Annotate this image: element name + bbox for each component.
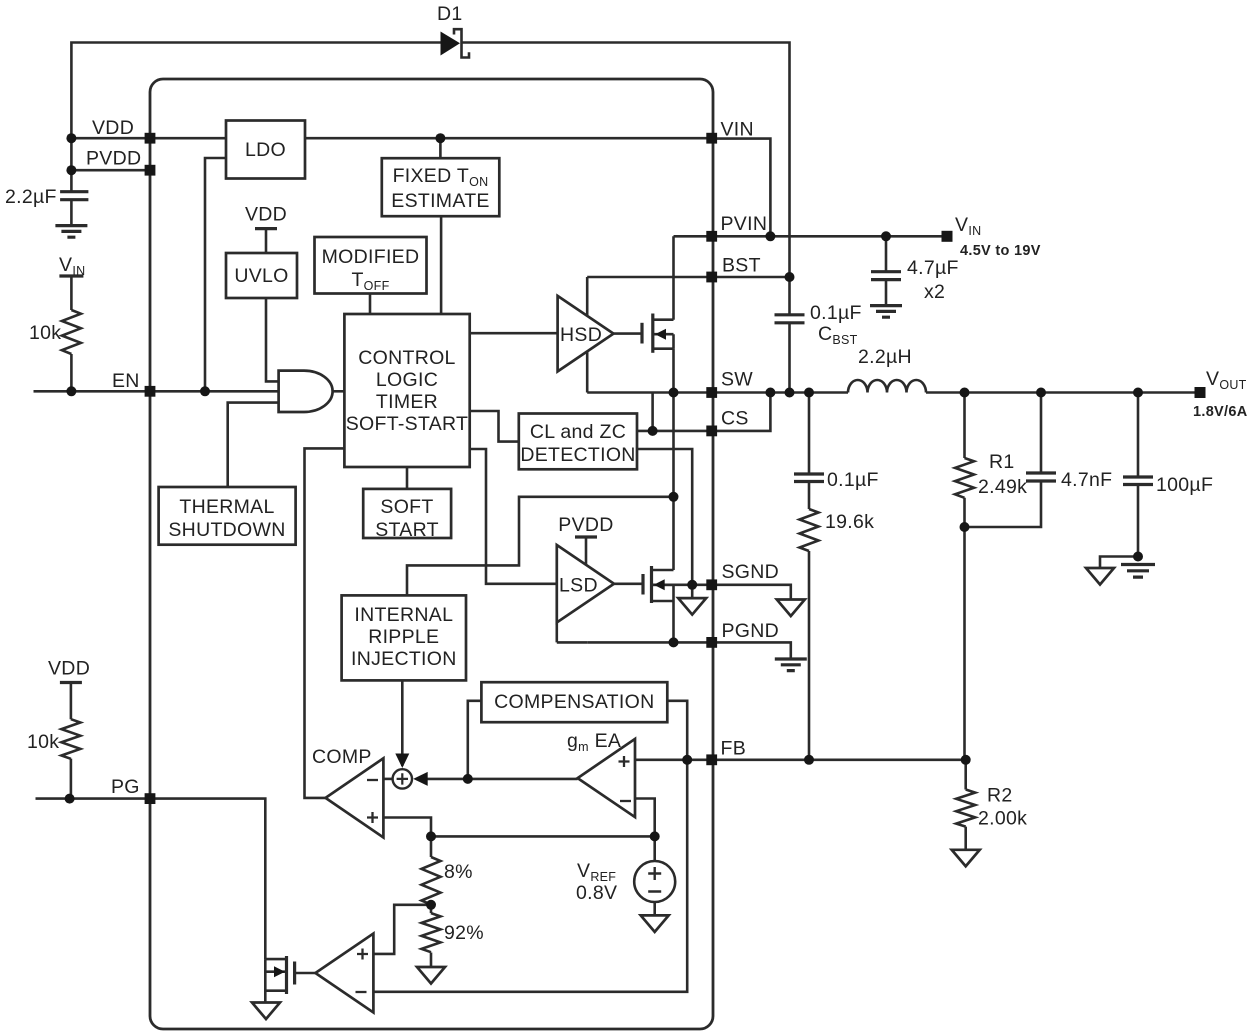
label PG comparator plus input	[357, 949, 368, 960]
svg-text:R2: R2	[987, 785, 1013, 807]
wire fixed ton estimate to control logic	[440, 216, 443, 314]
wire FB row	[635, 758, 966, 761]
pin EN	[145, 386, 156, 397]
wire LSD bottom rail to PGND	[557, 623, 587, 643]
wire CL and ZC to SGND	[637, 449, 692, 585]
capacitor CBST 0.1uF	[775, 277, 805, 393]
svg-text:VIN: VIN	[721, 119, 754, 141]
svg-text:SHUTDOWN: SHUTDOWN	[168, 519, 285, 541]
summing node circle	[393, 769, 412, 788]
wire R1 bottom to FB	[963, 527, 966, 760]
ground earth bars below 4.7uF	[870, 306, 902, 318]
pin PGND	[706, 637, 717, 648]
node PGND junction	[669, 637, 679, 647]
wire SGND pin to external ground	[712, 585, 791, 600]
ground triangle below 92 percent	[417, 967, 445, 984]
gate AND (EN logic)	[279, 371, 333, 412]
svg-text:x2: x2	[924, 281, 945, 303]
svg-text:INJECTION: INJECTION	[351, 648, 457, 670]
svg-text:CL and ZC: CL and ZC	[530, 421, 626, 443]
node VIN-PVIN junction	[765, 231, 775, 241]
transistor PG open-drain MOSFET	[265, 956, 294, 1003]
node VDD supply bar (PG pullup)	[60, 681, 82, 684]
wire SW row	[587, 391, 1195, 394]
svg-text:4.5V to 19V: 4.5V to 19V	[960, 243, 1041, 259]
ground triangle at output	[1086, 568, 1114, 585]
block SOFT START	[363, 489, 451, 538]
wire VDD supply to UVLO	[265, 229, 268, 253]
opamp input signs	[356, 756, 632, 992]
node BST-CBST junction	[785, 272, 795, 282]
wire VDD rail to D1 anode (top left)	[71, 43, 440, 139]
node SW-CS junction	[765, 388, 775, 398]
svg-text:CS: CS	[721, 408, 749, 430]
capacitor 2.2uF input bypass	[60, 192, 88, 226]
node 100uF-gnd junction	[1133, 552, 1143, 562]
label COMP minus input	[367, 779, 378, 781]
pin PG	[145, 793, 156, 804]
node divider-top junction	[426, 831, 436, 841]
svg-text:HSD: HSD	[560, 324, 602, 346]
wire control logic to HSD	[470, 332, 558, 335]
wire SGND row	[652, 583, 712, 586]
svg-text:VDD: VDD	[48, 658, 90, 680]
node SW-4.7nF junction	[1036, 388, 1046, 398]
diode D1	[441, 29, 470, 57]
wire FB to PG comparator inverting input	[373, 760, 687, 992]
svg-text:BST: BST	[722, 255, 761, 277]
node VDD-D1 junction	[66, 133, 76, 143]
wire D1 cathode to BST node	[462, 43, 790, 278]
node PVDD-cap junction	[66, 165, 76, 175]
svg-text:EN: EN	[112, 370, 140, 392]
node ripple tap junction	[669, 492, 679, 502]
node VDD supply bar (UVLO)	[255, 227, 277, 230]
node PG-pullup junction	[65, 794, 75, 804]
resistor 92 percent	[422, 913, 441, 952]
wire PG pin to open drain MOSFET	[150, 799, 265, 960]
svg-text:ESTIMATE: ESTIMATE	[391, 190, 489, 212]
wire compensation left to summing node	[468, 701, 482, 779]
node SW-HSD junction	[669, 388, 679, 398]
node R1-4.7nF junction	[960, 522, 970, 532]
svg-text:START: START	[375, 519, 439, 541]
svg-text:19.6k: 19.6k	[825, 511, 874, 533]
resistor 19.6k	[800, 509, 819, 760]
wire divider mid to PG comparator noninverting input	[373, 905, 431, 954]
node divider-mid junction	[426, 900, 436, 910]
svg-text:DETECTION: DETECTION	[520, 444, 635, 466]
block THERMAL SHUTDOWN	[159, 487, 296, 545]
ground triangle VREF	[641, 915, 669, 932]
ground earth bars below 2.2uF	[55, 226, 87, 238]
svg-text:LDO: LDO	[245, 139, 286, 161]
svg-text:2.2µF: 2.2µF	[5, 186, 57, 208]
block COMPENSATION	[481, 682, 667, 722]
label gm EA minus input	[620, 800, 631, 802]
resistor R1 2.49k	[955, 393, 974, 528]
capacitor 4.7nF	[965, 393, 1057, 528]
transistor high-side MOSFET	[614, 314, 674, 353]
wire 92 percent resistor to ground	[430, 953, 433, 968]
wire PG comparator output to MOSFET gate	[295, 972, 316, 975]
svg-text:PVIN: PVIN	[721, 213, 768, 235]
svg-text:SOFT-START: SOFT-START	[346, 413, 469, 435]
pin SW	[706, 387, 717, 398]
svg-text:PGND: PGND	[722, 620, 780, 642]
ground triangle SGND external	[777, 600, 805, 617]
ground triangle PG MOSFET source	[252, 1003, 280, 1020]
svg-text:PG: PG	[111, 776, 140, 798]
svg-text:0.1µF: 0.1µF	[827, 469, 879, 491]
wire UVLO to AND gate	[266, 298, 279, 381]
wire VDD pullup to PG	[70, 683, 73, 799]
svg-text:92%: 92%	[444, 922, 484, 944]
svg-text:VDD: VDD	[245, 204, 287, 226]
wire thermal shutdown to AND gate	[228, 403, 279, 487]
node SW-ripple junction	[804, 388, 814, 398]
resistor 10k (EN divider)	[62, 310, 81, 354]
node summing-comp junction	[463, 774, 473, 784]
svg-text:VDD: VDD	[92, 117, 134, 139]
block FIXED TON ESTIMATE	[382, 158, 500, 216]
svg-text:SOFT: SOFT	[380, 496, 433, 518]
svg-text:SW: SW	[721, 369, 753, 391]
wire ripple injection tap	[407, 497, 674, 596]
wire PG row	[36, 797, 151, 800]
amplifier COMP	[326, 758, 384, 837]
wire control logic to LSD	[470, 449, 557, 584]
node SW-CBST junction	[785, 388, 795, 398]
wire FIXED TON to VDD rail	[439, 138, 442, 158]
svg-text:RIPPLE: RIPPLE	[368, 626, 439, 648]
node CS-sense junction	[648, 426, 658, 436]
svg-text:2.49k: 2.49k	[978, 476, 1027, 498]
block LDO	[226, 121, 305, 179]
svg-text:0.1µF: 0.1µF	[810, 302, 862, 324]
svg-text:INTERNAL: INTERNAL	[354, 604, 453, 626]
svg-text:LSD: LSD	[559, 575, 598, 597]
pin CS	[706, 426, 717, 437]
label PG comparator minus input	[356, 991, 367, 993]
wire gm EA output to summing node	[416, 778, 578, 781]
svg-text:TIMER: TIMER	[376, 391, 438, 413]
node FB-R2 junction	[961, 755, 971, 765]
svg-text:100µF: 100µF	[1156, 474, 1213, 496]
svg-text:0.8V: 0.8V	[576, 882, 617, 904]
svg-text:CONTROL: CONTROL	[358, 347, 455, 369]
ground triangle SGND internal	[678, 598, 706, 615]
svg-text:D1: D1	[437, 3, 463, 25]
svg-text:2.00k: 2.00k	[978, 808, 1027, 830]
svg-text:PVDD: PVDD	[558, 514, 613, 536]
wire PGND pin to external ground	[712, 642, 791, 659]
node EN-divider junction	[66, 386, 76, 396]
pin VIN	[706, 133, 717, 144]
node FB-comp junction	[682, 755, 692, 765]
IC boundary	[150, 79, 713, 1029]
inductor 2.2uH	[848, 380, 926, 393]
wire modified toff to control logic	[369, 294, 372, 315]
svg-text:FB: FB	[721, 738, 747, 760]
wire EN to LDO	[205, 158, 226, 391]
node EN-LDO junction	[200, 386, 210, 396]
driver LSD	[557, 545, 614, 623]
svg-text:1.8V/6A: 1.8V/6A	[1193, 404, 1248, 420]
svg-text:4.7µF: 4.7µF	[907, 257, 959, 279]
wire COMP noninverting input to divider	[383, 818, 654, 837]
svg-text:SGND: SGND	[722, 561, 780, 583]
wire HSD drain from PVIN	[672, 236, 675, 319]
capacitor 100uF output	[1123, 393, 1153, 557]
wire HSD source to SW	[672, 349, 675, 393]
node PVIN-4.7uF junction	[881, 231, 891, 241]
pin squares	[145, 133, 718, 804]
svg-text:10k: 10k	[29, 322, 61, 344]
wire internal SGND ground stub	[691, 585, 694, 598]
svg-text:PVDD: PVDD	[86, 148, 141, 170]
block CL and ZC DETECTION	[519, 414, 637, 470]
resistor 8 percent	[422, 857, 441, 905]
ground earth bars PGND external	[775, 659, 807, 671]
block INTERNAL RIPPLE INJECTION	[342, 595, 466, 680]
wire CS row	[637, 393, 770, 431]
terminal VIN input	[942, 231, 953, 242]
driver HSD	[558, 296, 614, 372]
wire EN row	[34, 390, 279, 393]
ground earth bars below 100uF	[1121, 565, 1155, 578]
wire PVDD pin to input cap	[71, 138, 150, 192]
comparator PG	[315, 934, 373, 1013]
wire LSD source to PGND row	[672, 601, 675, 642]
pin BST	[706, 272, 717, 283]
capacitor 0.1uF ripple injection	[794, 393, 824, 510]
node VDD-TON junction	[435, 133, 445, 143]
transistor low-side MOSFET	[614, 566, 674, 603]
pin SGND	[706, 579, 717, 590]
wire PVIN row	[674, 235, 943, 238]
node SW-100uF junction	[1133, 388, 1143, 398]
svg-text:UVLO: UVLO	[234, 265, 288, 287]
label gm EA plus input	[619, 756, 630, 767]
wire BST row	[587, 276, 789, 279]
wire SW rail to LSD drain	[672, 393, 675, 571]
ground triangle below R2	[952, 850, 980, 867]
wire compensation right to FB	[667, 701, 687, 760]
wire 100uF to analog ground	[1100, 557, 1138, 569]
block UVLO	[226, 253, 297, 298]
terminal VOUT output	[1195, 387, 1206, 398]
node FB-ripple junction	[804, 755, 814, 765]
wire control logic to soft start	[406, 467, 409, 489]
wire control logic to CL and ZC detection	[470, 411, 519, 442]
wire VIN pin to PVIN row	[712, 139, 771, 237]
svg-text:LOGIC: LOGIC	[376, 369, 438, 391]
wire PGND row	[587, 641, 712, 644]
block CONTROL LOGIC TIMER SOFT-START	[344, 314, 469, 467]
pin FB	[706, 754, 717, 765]
arrow gm EA output into summing node	[413, 772, 428, 786]
svg-text:2.2µH: 2.2µH	[858, 346, 912, 368]
amplifier gm EA	[578, 739, 635, 817]
node VIN supply bar (left divider)	[59, 274, 83, 277]
svg-text:R1: R1	[989, 451, 1015, 473]
wire AND gate to control logic	[333, 390, 345, 393]
wire internal ripple injection to summing node	[401, 680, 404, 766]
pin VDD	[145, 133, 156, 144]
node SW-R1 junction	[960, 388, 970, 398]
node PVDD supply bar (LSD)	[575, 537, 597, 566]
label COMP plus input	[367, 812, 378, 823]
wire gm EA inverting input to VREF	[635, 799, 655, 862]
source VREF 0.8V	[634, 861, 675, 915]
svg-text:10k: 10k	[27, 731, 59, 753]
wire COMP output to control logic	[305, 448, 345, 798]
wire VIN divider to EN	[70, 276, 73, 391]
svg-text:MODIFIED: MODIFIED	[322, 246, 420, 268]
svg-text:4.7nF: 4.7nF	[1061, 469, 1112, 491]
capacitor 4.7uF x2	[871, 236, 901, 305]
node SGND junction	[687, 580, 697, 590]
svg-text:COMPENSATION: COMPENSATION	[494, 691, 654, 713]
arrow ripple injection into summing node	[395, 754, 409, 769]
svg-text:8%: 8%	[444, 861, 473, 883]
wire VDD rail	[71, 137, 711, 140]
svg-text:THERMAL: THERMAL	[179, 496, 274, 518]
resistor 10k (PG pullup)	[61, 719, 80, 759]
pin PVIN	[706, 231, 717, 242]
block MODIFIED TOFF	[315, 237, 427, 294]
wire BST to SW through HSD driver	[586, 277, 589, 393]
svg-text:COMP: COMP	[312, 746, 372, 768]
node VREF-top junction	[650, 831, 660, 841]
wire divider top stub	[430, 836, 433, 857]
resistor R2 2.00k	[956, 760, 975, 850]
svg-text:gm EA: gm EA	[567, 730, 621, 754]
wire summing node to COMP inverting input	[383, 778, 392, 781]
pin PVDD	[145, 165, 156, 176]
